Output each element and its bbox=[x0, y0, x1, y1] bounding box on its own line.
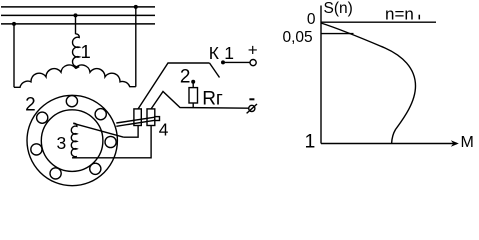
junction dot A bbox=[12, 22, 16, 26]
svg-text:0,05: 0,05 bbox=[283, 29, 313, 46]
slip ring brush left bbox=[134, 109, 141, 126]
inductor coil 1 (series coil) bbox=[73, 34, 80, 69]
svg-text:К: К bbox=[209, 43, 220, 63]
svg-text:+: + bbox=[248, 41, 258, 60]
label minus bbox=[249, 98, 254, 100]
wire tap A left bbox=[13, 24, 15, 87]
slip ring brush right bbox=[147, 109, 155, 126]
bolt circle 3 bbox=[90, 163, 101, 174]
wire tap B center bbox=[75, 15, 77, 34]
svg-text:1: 1 bbox=[224, 43, 234, 63]
wire rotor coil bottom bbox=[72, 126, 151, 158]
svg-text:1: 1 bbox=[304, 130, 315, 152]
stator winding (scallop arcs) bbox=[14, 65, 136, 87]
plus terminal circle bbox=[250, 60, 256, 66]
svg-text:4: 4 bbox=[159, 119, 169, 139]
bolt circle 5 bbox=[31, 144, 42, 155]
graph horizontal axis M with arrow bbox=[321, 143, 457, 145]
wire contact to plus terminal bbox=[225, 61, 250, 63]
svg-text:0: 0 bbox=[307, 11, 316, 28]
bolt circle 1 bbox=[95, 109, 106, 120]
switch contact dot 1 bbox=[221, 60, 225, 64]
junction dot B bbox=[74, 13, 78, 17]
resistor Rg body bbox=[189, 88, 198, 103]
S(M) curve bbox=[321, 23, 416, 144]
bolt circle 2 bbox=[105, 136, 116, 147]
bus line L2 bbox=[1, 14, 155, 16]
graph vertical axis S(n) bbox=[320, 6, 322, 144]
wire left brush to switch bbox=[138, 63, 210, 109]
bus line L1 bbox=[1, 6, 155, 8]
wire rotor coil top to brush wire bbox=[73, 123, 123, 137]
n=n1 reference line bbox=[321, 21, 436, 23]
svg-text:2: 2 bbox=[180, 66, 191, 87]
rotor winding coil bbox=[71, 123, 77, 158]
wire tap C right bbox=[135, 7, 137, 87]
bolt circle 4 bbox=[50, 168, 61, 179]
wire elbow to left brush bbox=[124, 126, 139, 138]
resistor Rg stub top bbox=[192, 82, 194, 88]
rotor inner circle bbox=[41, 110, 103, 172]
shaft end tab bbox=[155, 117, 160, 121]
junction dot C bbox=[134, 5, 138, 9]
0.05 level line bbox=[321, 33, 354, 35]
svg-text:n=n: n=n bbox=[385, 5, 414, 24]
shaft line lower bbox=[116, 120, 155, 126]
bus line L3 bbox=[1, 23, 155, 25]
switch K blade bbox=[210, 63, 220, 78]
minus terminal slash bbox=[247, 104, 257, 113]
shaft line upper bbox=[116, 117, 155, 123]
svg-text:1: 1 bbox=[81, 41, 91, 62]
bolt circle 6 bbox=[37, 112, 48, 123]
axis arrow head bbox=[451, 140, 459, 146]
bolt circle 0 (top) bbox=[66, 96, 77, 107]
svg-text:2: 2 bbox=[25, 94, 36, 115]
minus terminal circle bbox=[249, 105, 255, 111]
svg-text:Rг: Rг bbox=[202, 88, 223, 109]
subscript 1 bar bbox=[418, 15, 420, 20]
svg-text:3: 3 bbox=[57, 133, 67, 153]
wire right brush to rheostat bbox=[151, 92, 249, 110]
node dot 2 bbox=[191, 80, 195, 84]
stator outer circle (label 2) bbox=[27, 95, 117, 185]
svg-text:M: M bbox=[461, 134, 474, 151]
svg-text:S(n): S(n) bbox=[324, 0, 353, 17]
resistor Rg stub bottom bbox=[192, 103, 194, 108]
